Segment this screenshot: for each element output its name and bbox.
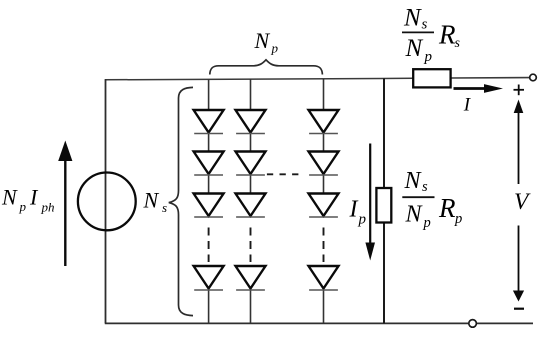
brace: Np over parallel columns [210, 60, 323, 75]
wire: dashed continuation row (more parallel columns) [267, 173, 299, 175]
svg-text:N: N [143, 188, 160, 213]
diode D22 [236, 152, 266, 176]
svg-text:R: R [438, 193, 456, 223]
brace: Ns for series diodes [169, 87, 193, 315]
label: Ip [349, 197, 367, 228]
resistor Rp (vertical box) [376, 188, 391, 223]
diode D13 [309, 110, 339, 134]
label: plus sign [514, 85, 525, 96]
arrow: V upper (up) [514, 100, 524, 185]
terminal: positive output (open circle) [530, 74, 537, 81]
diode D11 [194, 110, 224, 134]
wire: dashed continuation column 2 [250, 228, 252, 263]
label: minus sign [514, 308, 524, 310]
arrow: photocurrent direction (up) [58, 141, 72, 267]
svg-text:R: R [438, 20, 456, 50]
label: Np Iph [1, 185, 55, 215]
svg-text:N: N [404, 168, 423, 194]
arrow: V lower (down) [513, 226, 524, 302]
wire: shunt branch lower segment [383, 222, 385, 323]
label: Ns (left) [143, 188, 168, 216]
label: Ns/Np Rs (series resistance value) [402, 4, 461, 65]
arrow: Ip (down) [365, 144, 375, 261]
diode D32 [236, 194, 266, 218]
terminal: negative output (open circle) [469, 320, 477, 328]
label: Np (top) [254, 28, 279, 56]
diode D21 [194, 152, 224, 176]
svg-text:s: s [455, 36, 461, 51]
diode D33 [309, 194, 339, 218]
current source Iph (circle) [78, 173, 136, 231]
svg-text:p: p [19, 199, 27, 214]
svg-text:N: N [254, 28, 271, 53]
svg-text:s: s [162, 200, 167, 215]
svg-text:p: p [454, 211, 462, 227]
wire: left branch vertical through current source [105, 79, 107, 323]
wire: dashed continuation column 1 [208, 228, 210, 263]
svg-text:ph: ph [41, 200, 55, 215]
diode D12 [236, 110, 266, 134]
diode D42 [236, 266, 266, 290]
diode D23 [309, 152, 339, 176]
wire: diode column 1 connecting segments [208, 79, 210, 323]
wire: diode column 2 connecting segments [250, 79, 252, 323]
diode D41 [194, 266, 224, 290]
svg-text:N: N [403, 4, 422, 31]
wire: dashed continuation column 3 [323, 228, 325, 263]
resistor Rs (series box) [413, 69, 450, 87]
wire: top bus from left branch to Rs [105, 78, 414, 80]
wire: diode column 3 connecting segments [323, 79, 325, 323]
svg-text:p: p [358, 212, 367, 228]
wire: bottom bus [105, 322, 533, 324]
svg-text:I: I [349, 197, 359, 223]
svg-text:N: N [405, 35, 424, 62]
svg-text:N: N [1, 185, 18, 210]
svg-text:p: p [424, 49, 433, 65]
svg-text:s: s [422, 179, 428, 195]
svg-text:s: s [422, 17, 428, 33]
svg-text:p: p [271, 40, 279, 55]
arrow: output current I [454, 84, 504, 93]
diode D31 [194, 194, 224, 218]
svg-text:N: N [405, 201, 424, 227]
label: Ns/Np Rp (shunt resistance value) [402, 168, 462, 231]
svg-text:p: p [423, 215, 431, 231]
wire: top right from Rs to positive terminal [451, 77, 530, 79]
wire: shunt branch upper segment [383, 78, 385, 188]
diode D43 [309, 266, 339, 290]
